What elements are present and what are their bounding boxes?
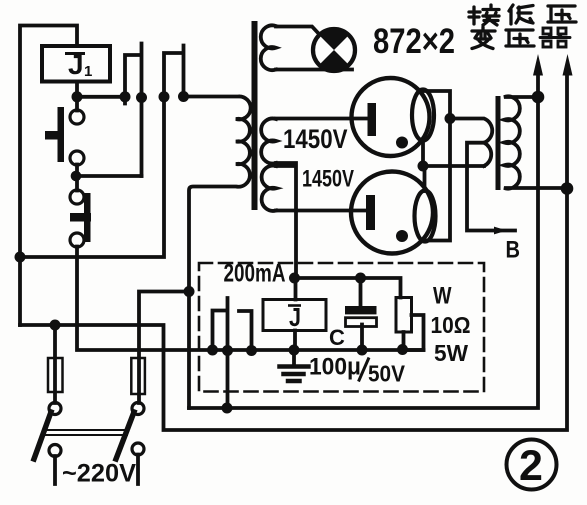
label CJK jie (connect) xyxy=(469,5,499,25)
wire: mains horizontal to transformer xyxy=(20,97,164,257)
svg-text:5W: 5W xyxy=(434,340,468,366)
wire: fuse1 branch xyxy=(53,325,57,403)
junction: capacitor C bottom xyxy=(357,345,368,356)
wire: left mains loop xyxy=(20,26,77,326)
arrowhead B xyxy=(494,227,507,235)
svg-text:1450V: 1450V xyxy=(283,124,348,154)
junction: relay J bottom / ground node xyxy=(289,345,300,356)
junction: push-button to J1-1 contact xyxy=(71,171,82,182)
arrowhead LV 2 xyxy=(563,54,573,76)
wire: rail segment node A xyxy=(77,95,125,99)
capacitor C plates xyxy=(345,306,377,314)
wire: mains lower loop to LV transformer xyxy=(20,76,567,430)
junction: T2 right winding bottom / LV line 2 xyxy=(561,182,574,195)
wire: V2 filament top xyxy=(423,166,427,191)
junction: link2 right pin / T1 primary top xyxy=(178,91,189,102)
wire: B+ output from T2 center tap xyxy=(467,143,515,231)
wire: HV center tap to meter xyxy=(276,163,296,278)
svg-text:10Ω: 10Ω xyxy=(431,312,471,338)
wire: V1 filament top hook xyxy=(423,91,450,119)
svg-text:50V: 50V xyxy=(368,361,406,387)
junction: fuse1 tap xyxy=(50,320,61,331)
wire: relay contact down to meter rail xyxy=(77,247,424,351)
relay coil J1 xyxy=(42,46,110,82)
wire: link hook 1 xyxy=(125,44,142,177)
transformer T2 left winding xyxy=(450,119,492,167)
dashed meter unit box xyxy=(199,263,484,392)
junction: J1 coil / push-button node xyxy=(72,91,83,102)
transformer T1 HV winding 2 (1450V) xyxy=(262,166,276,211)
junction: left rail to mains wire xyxy=(15,252,26,263)
transformer T2 right winding xyxy=(504,96,567,188)
wire: winding2 to tube V2 plate xyxy=(276,209,366,213)
wire: meter plug stub 2 xyxy=(239,311,252,350)
label CJK ya2 (pressure) xyxy=(506,30,534,46)
svg-text:100μ: 100μ xyxy=(309,354,361,381)
wire: lamp bottom lead xyxy=(276,68,352,72)
wire: resistor leads xyxy=(402,315,424,350)
svg-text:J: J xyxy=(289,302,301,332)
svg-text:B: B xyxy=(506,237,521,264)
wire: filament bus V1 top to V2 bottom xyxy=(426,119,451,241)
junction: fuse2 tap on primary return xyxy=(184,286,195,297)
label CJK di (low) xyxy=(509,5,533,24)
junction: link1 right pin xyxy=(136,92,147,103)
wire: meter top rail xyxy=(295,278,401,298)
relay J coil box xyxy=(263,300,326,331)
svg-text:1: 1 xyxy=(84,63,92,80)
capacitor C leads xyxy=(361,278,363,350)
label CJK ya (pressure) xyxy=(548,6,576,22)
wire: J leads xyxy=(293,278,297,350)
wire: winding1 to tube V1 plate xyxy=(276,117,368,121)
svg-text:2: 2 xyxy=(519,442,543,490)
wire: link hook 2 xyxy=(164,46,184,97)
svg-text:W: W xyxy=(433,283,452,310)
wire: meter plug stub 1 xyxy=(213,298,228,408)
svg-text:J: J xyxy=(68,49,84,80)
knife switch DK xyxy=(49,403,61,415)
wire: lamp top lead xyxy=(276,27,319,35)
svg-text:~220V: ~220V xyxy=(62,460,136,488)
wire: V1 filament bottom xyxy=(421,141,425,167)
wire: filament rail xyxy=(423,164,484,168)
junction: link2 left pin / mains feed xyxy=(159,91,170,102)
junction: plug stub riser on rail xyxy=(222,345,233,356)
fuse RD1 xyxy=(48,358,63,392)
ground xyxy=(292,350,296,365)
wire: contact row to hook1 xyxy=(76,174,142,178)
arrowhead LV 1 xyxy=(533,54,543,76)
junction: capacitor C top xyxy=(355,273,366,284)
resistor W box xyxy=(396,298,412,333)
svg-text:1450V: 1450V xyxy=(302,166,354,193)
push-button switch AN xyxy=(70,110,84,124)
junction: link1 left pin xyxy=(120,91,131,102)
svg-text:872×2: 872×2 xyxy=(373,22,455,61)
label CJK bian (transform) xyxy=(472,27,495,49)
rectifier tube V1 (872) xyxy=(352,78,430,156)
lamp XD indicator xyxy=(313,29,355,71)
fuse RD2 xyxy=(131,358,145,394)
wire: fuse2 branch from primary lead xyxy=(139,292,189,404)
transformer T1 core xyxy=(252,21,258,210)
figure number 2 xyxy=(507,440,557,490)
junction: T2 right winding top / LV line 1 xyxy=(532,91,545,104)
junction: V1 filament top / T2 left winding top xyxy=(445,113,456,124)
junction: V1 filament bottom / V2 filament top xyxy=(418,161,429,172)
svg-text:200mA: 200mA xyxy=(224,260,286,288)
junction: plug stub 1 on rail xyxy=(207,345,218,356)
transformer T1 filament winding xyxy=(261,25,276,70)
label J xyxy=(288,304,301,307)
transformer T1 HV winding 1 (1450V) xyxy=(261,119,276,164)
transformer T2 core xyxy=(496,96,501,190)
junction: meter rail / HV center tap xyxy=(289,273,300,284)
rectifier tube V2 (872) xyxy=(351,172,433,254)
wire: J1 bottom lead to push-button xyxy=(75,82,79,111)
wire: push-button to relay contact xyxy=(75,165,79,191)
junction: meter return on inner rail xyxy=(222,403,233,414)
label J1 xyxy=(65,52,85,55)
wire: inner bottom return to LV transformer xyxy=(189,76,538,408)
label CJK qi (device) xyxy=(540,28,570,47)
svg-text:C: C xyxy=(329,325,345,350)
relay contact J1-1 xyxy=(70,190,84,204)
junction: plug stub 2 on rail xyxy=(246,345,257,356)
junction: resistor W bottom xyxy=(397,344,408,355)
transformer T1 primary winding xyxy=(184,96,251,408)
